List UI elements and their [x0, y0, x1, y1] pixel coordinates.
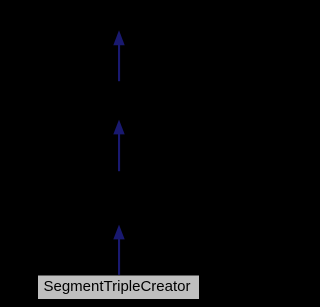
inheritance arrow 1 (top edge, pointing up)	[113, 30, 124, 81]
inheritance arrow 3 (bottom edge, pointing up)	[113, 225, 124, 275]
inheritance arrow 2 (middle edge, pointing up)	[113, 120, 124, 172]
svg-text:SegmentTripleCreator: SegmentTripleCreator	[43, 278, 190, 295]
class node SegmentTripleCreator (gray box)	[38, 276, 199, 300]
